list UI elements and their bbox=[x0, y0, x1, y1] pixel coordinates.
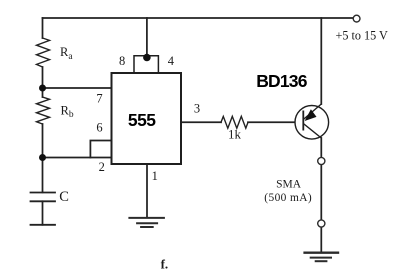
ground for SMA bbox=[303, 253, 339, 262]
wire pin 6 jog bbox=[90, 141, 111, 158]
wire node A to Rb bbox=[42, 88, 44, 97]
wire Rb to node B bbox=[42, 124, 44, 158]
svg-text:SMA: SMA bbox=[276, 178, 302, 190]
wire capacitor to end bar bbox=[42, 201, 44, 225]
resistor 1k bbox=[221, 116, 248, 128]
svg-text:6: 6 bbox=[96, 121, 102, 135]
svg-text:4: 4 bbox=[168, 54, 175, 68]
capacitor C bbox=[31, 193, 56, 202]
svg-text:2: 2 bbox=[99, 160, 105, 174]
node A junction dot bbox=[39, 85, 46, 92]
wire Ra to node A bbox=[42, 67, 44, 88]
svg-text:f.: f. bbox=[161, 257, 169, 271]
svg-text:+5 to 15 V: +5 to 15 V bbox=[336, 29, 389, 43]
wire pin 1 bbox=[146, 164, 148, 217]
resistor Ra bbox=[37, 38, 50, 67]
wire 1k to base bbox=[248, 121, 303, 123]
node B junction dot bbox=[39, 154, 46, 161]
terminal +V open circle bbox=[353, 15, 360, 22]
wire emitter vertical bbox=[320, 18, 322, 104]
transistor Q1 BD136 bbox=[295, 104, 329, 139]
svg-text:3: 3 bbox=[194, 102, 200, 116]
wire pin 2 bbox=[43, 157, 112, 159]
555 timer U1 bbox=[112, 56, 182, 164]
wire left vertical top bbox=[42, 18, 44, 38]
node pins 8-4 junction dot bbox=[143, 54, 151, 62]
wire SMA to ground bbox=[320, 227, 322, 252]
svg-text:1k: 1k bbox=[228, 127, 242, 142]
svg-text:(500 mA): (500 mA) bbox=[264, 192, 312, 204]
terminal SMA top open circle bbox=[318, 157, 325, 164]
svg-text:BD136: BD136 bbox=[256, 71, 308, 91]
wire node B to capacitor bbox=[42, 158, 44, 193]
terminal SMA bottom open circle bbox=[318, 220, 325, 227]
svg-text:C: C bbox=[59, 189, 69, 205]
svg-text:555: 555 bbox=[128, 110, 156, 130]
wire rail to pins 8-4 bbox=[146, 18, 148, 57]
wire pin 3 bbox=[181, 121, 221, 123]
wire collector to SMA bbox=[320, 138, 322, 157]
resistor Rb bbox=[37, 97, 50, 124]
capacitor bottom terminal bar bbox=[31, 224, 56, 226]
wire top supply rail bbox=[43, 17, 354, 19]
svg-text:8: 8 bbox=[119, 54, 125, 68]
ground for 555 pin 1 bbox=[128, 218, 165, 227]
wire SMA link bbox=[320, 165, 322, 220]
wire pin 7 bbox=[43, 87, 112, 89]
svg-text:7: 7 bbox=[96, 92, 102, 106]
svg-text:1: 1 bbox=[152, 169, 158, 183]
